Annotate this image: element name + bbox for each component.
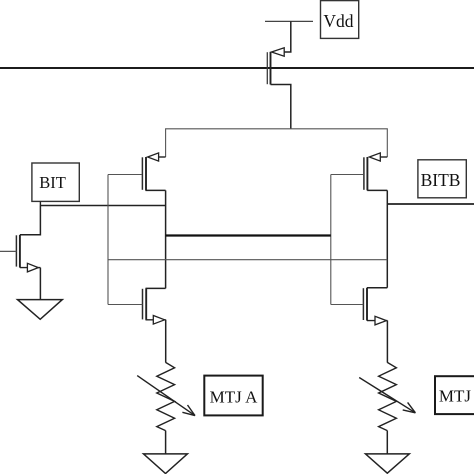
pmos U2 channel (366, 157, 368, 190)
pmos U5 gate bar (266, 52, 268, 84)
nmos U3 drain stub (146, 287, 166, 289)
svg-text:BIT: BIT (39, 173, 66, 192)
wire: left latch drain vertical (165, 190, 167, 288)
pmos U5 source wire (284, 21, 291, 52)
pmos U2 source stub (380, 156, 387, 158)
svg-text:MTJ: MTJ (439, 387, 472, 406)
wire: cross-couple thin (108, 259, 387, 261)
pmos U2 source arrow (369, 153, 380, 161)
nmos U4 gate stub (331, 304, 364, 306)
wire: MTJ A to ground (165, 431, 167, 454)
ground (bottom left) (144, 454, 188, 474)
nmos U6 source stub (20, 267, 41, 269)
wire: right latch drain vertical (386, 190, 388, 287)
pmos U1 source stub (159, 156, 166, 158)
svg-text:BITB: BITB (421, 170, 461, 190)
nmos U4 source stub (367, 320, 387, 322)
pmos U2 gate bar (363, 157, 365, 190)
wire: U3 source down (165, 320, 167, 363)
wire: MTJ B to ground (386, 431, 388, 454)
nmos U6 drain wire (20, 206, 40, 235)
pmos U5 source arrow (272, 48, 285, 56)
nmos U4 channel (366, 288, 368, 321)
wire: Vdd supply bar (265, 20, 313, 22)
wire: BITB horizontal (387, 203, 474, 205)
pmos U2 gate stub (331, 174, 364, 176)
svg-text:Vdd: Vdd (323, 11, 353, 31)
wire: left gate rail (107, 175, 109, 305)
pmos U1 source arrow (148, 153, 159, 161)
nmos U6 channel (19, 235, 21, 268)
MTJ B tilt arrow (359, 378, 415, 413)
wire: cross-couple thick (166, 234, 331, 236)
nmos U6 gate stub (0, 250, 16, 252)
pmos U1 gate bar (141, 157, 143, 190)
resistor MTJ B (379, 362, 397, 430)
pmos U2 drain stub (367, 189, 387, 191)
pmos U5 channel (270, 52, 272, 85)
pmos U5 drain wire (271, 85, 291, 130)
MTJ A tilt arrow (137, 376, 195, 416)
nmos U4 source arrow (375, 316, 386, 325)
ground (bottom right) (366, 454, 410, 473)
wire: right gate rail (330, 175, 332, 305)
pmos U1 channel (145, 157, 147, 190)
nmos U3 gate stub (108, 304, 142, 306)
BITB box (418, 160, 466, 198)
wire: BIT connector from box (39, 201, 41, 205)
nmos U3 source stub (146, 319, 166, 321)
wire: latch top rail (166, 129, 388, 157)
wire: U4 source down (386, 321, 388, 363)
pmos U1 drain stub (146, 189, 166, 191)
MTJ A box (204, 376, 262, 416)
wire: BIT horizontal (40, 205, 165, 207)
Vdd box (321, 1, 359, 39)
nmos U3 gate bar (142, 289, 144, 320)
BIT box (32, 163, 79, 201)
wire: full-width sense-enable line (0, 67, 474, 69)
nmos U6 gate bar (15, 235, 17, 266)
wire: U6 source to ground (39, 268, 41, 300)
resistor MTJ A (157, 362, 175, 430)
nmos U6 source arrow (27, 263, 38, 272)
pmos U1 gate stub (108, 174, 142, 176)
nmos U4 gate bar (362, 288, 364, 320)
nmos U3 channel (145, 288, 147, 319)
MTJ B box (435, 376, 474, 414)
nmos U4 drain stub (367, 287, 387, 289)
ground (left) (18, 300, 63, 320)
nmos U3 source arrow (153, 316, 164, 325)
svg-text:MTJ A: MTJ A (210, 387, 258, 406)
